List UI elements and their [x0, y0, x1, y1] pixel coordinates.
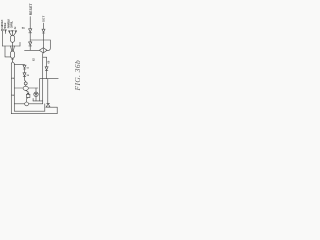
wire riser J — [44, 104, 46, 111]
wire led bottom — [35, 97, 37, 101]
diode D2 — [29, 42, 32, 46]
wire S5 to U1 — [14, 32, 16, 35]
wire bus H right — [29, 103, 43, 105]
diode S3 — [9, 31, 11, 33]
wire SET down — [43, 23, 45, 29]
wire bus E — [40, 78, 59, 80]
diode D5 — [42, 29, 45, 33]
wire feedback G — [47, 79, 49, 104]
wire stub B — [19, 42, 21, 46]
relay C2 — [23, 86, 28, 90]
wire bus N — [11, 113, 57, 115]
wire C3-C4 — [27, 98, 29, 102]
wire left input rail — [1, 31, 3, 46]
diode D3 — [23, 65, 26, 69]
wire bracket to diode chain — [14, 64, 24, 67]
wire D3-D4 — [24, 69, 26, 73]
wire S2 stub — [5, 31, 7, 33]
lamp C1 — [24, 82, 27, 85]
wire riser M — [56, 107, 58, 113]
wire C2-C3 — [26, 90, 28, 93]
wire S4 to U1 — [11, 32, 13, 35]
wire D5 to U3 — [43, 33, 45, 48]
led D8 — [34, 92, 38, 96]
wire W1 — [42, 53, 45, 104]
wire U1 output — [12, 42, 14, 46]
wire riser F — [39, 79, 41, 101]
diode S4 — [12, 31, 14, 32]
diode S1 — [2, 29, 4, 31]
transistor C3 — [26, 93, 30, 97]
wire U2 V inputs — [11, 46, 15, 51]
svg-text:SET: SET — [42, 15, 46, 22]
wire bus I — [33, 100, 43, 102]
wire bus C drop — [47, 40, 51, 50]
wire bus H — [14, 103, 24, 105]
wire U2 output fork — [11, 60, 12, 64]
svg-text:RESET: RESET — [29, 3, 33, 15]
diode S5 — [15, 31, 17, 33]
diode D1 — [29, 29, 32, 33]
wire C1-C2 — [25, 85, 27, 86]
wire U2 top input — [12, 46, 14, 51]
diode D7 — [46, 103, 50, 107]
diode D4 — [23, 73, 26, 77]
gate U1 — [10, 35, 14, 42]
box K1 top left — [14, 87, 23, 89]
wire left branch to U2 — [5, 46, 10, 57]
wire fork right branch — [13, 62, 15, 111]
box K1 top right — [28, 87, 38, 89]
wire S3 to U1 — [9, 32, 11, 35]
wire D4 down — [25, 77, 26, 82]
wire D1 to bus — [29, 33, 31, 42]
wire stub N2 — [32, 98, 34, 101]
op-amp U3 — [39, 48, 47, 53]
wire bus C — [30, 39, 50, 41]
box K1 bottom — [14, 110, 45, 112]
wire D6 down — [46, 71, 48, 79]
wire led top — [35, 88, 37, 92]
wire D2 to bus D — [29, 46, 31, 50]
gate U2 — [10, 51, 14, 60]
diode S2 — [5, 30, 7, 32]
diode D6 — [45, 67, 48, 71]
lamp C4 — [25, 102, 29, 106]
wire bus A — [2, 45, 20, 47]
wire rail left loop — [10, 63, 12, 113]
wire RESET down — [29, 17, 31, 29]
svg-text:FIG. 36b: FIG. 36b — [73, 60, 82, 92]
wire bus D — [25, 49, 40, 51]
wire D7 base — [46, 106, 57, 108]
wire branch to D6 — [43, 57, 47, 67]
